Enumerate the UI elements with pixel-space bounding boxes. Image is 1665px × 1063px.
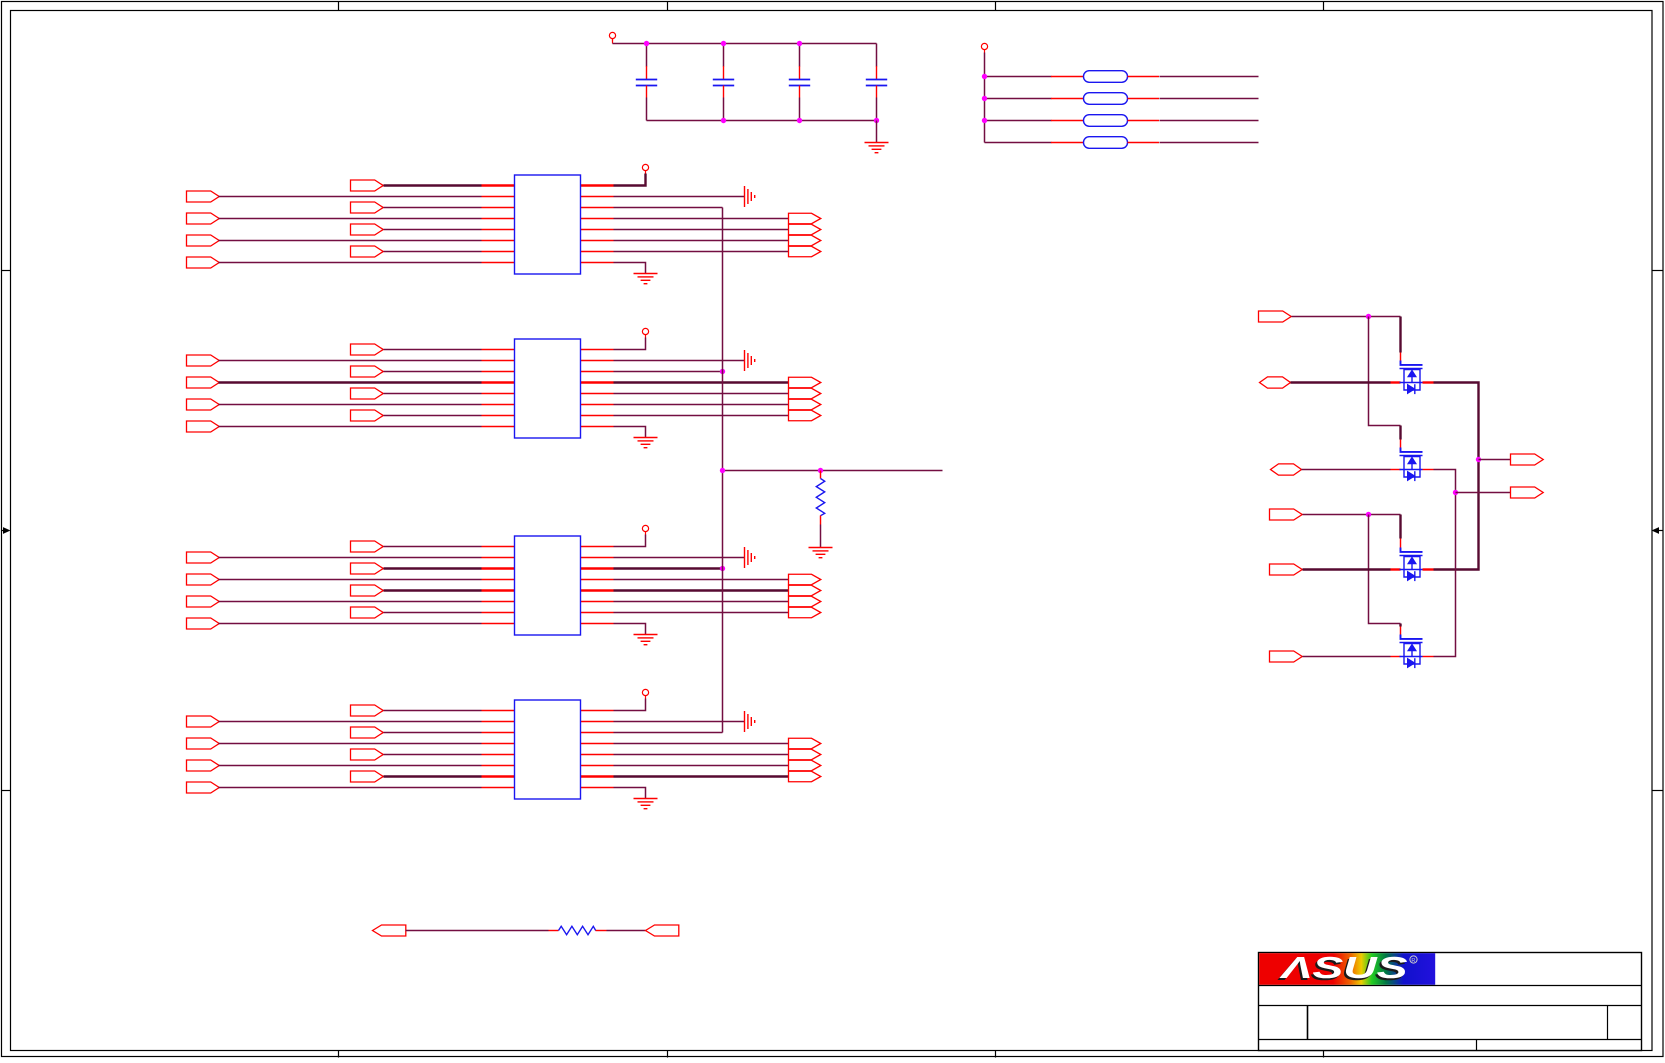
border tick bottom — [995, 1051, 997, 1058]
buffer IC U4 — [515, 700, 581, 799]
junction — [1476, 457, 1481, 462]
pin — [482, 579, 515, 581]
pin — [581, 415, 614, 417]
wire cap stub — [723, 44, 725, 67]
wire — [612, 39, 614, 44]
title block frame — [1259, 953, 1642, 1051]
pin — [581, 546, 614, 548]
pin — [581, 623, 614, 625]
wire to power — [614, 699, 646, 711]
wire horizontal branch — [723, 470, 943, 472]
pin — [581, 371, 614, 373]
pin — [581, 557, 614, 559]
wire cap stub — [799, 98, 801, 121]
wire — [384, 546, 482, 548]
wire cap stub — [876, 44, 878, 67]
input port block3 row2 — [187, 552, 220, 563]
wire cap stub — [799, 44, 801, 67]
pin — [1400, 353, 1402, 362]
output port block1 row6 — [789, 235, 821, 246]
pin — [581, 251, 614, 253]
svg-text:ΛSUS: ΛSUS — [1279, 950, 1408, 985]
junction — [720, 468, 725, 473]
pin — [482, 426, 515, 428]
wire — [985, 76, 1052, 78]
border tick top — [667, 2, 669, 11]
pin — [1391, 656, 1401, 658]
wire — [219, 579, 482, 581]
title block divider — [1476, 1040, 1478, 1051]
buffer IC U2 — [515, 339, 581, 438]
wire — [607, 930, 646, 932]
wire — [219, 623, 482, 625]
pin — [482, 207, 515, 209]
wire to output — [614, 229, 789, 231]
capacitor C2 — [713, 66, 734, 97]
pin — [482, 732, 515, 734]
input port NET4 — [1270, 509, 1303, 520]
border tick left — [2, 790, 11, 792]
input port block4 row7 — [351, 771, 384, 782]
input port block4 row4 — [187, 738, 220, 749]
buffer IC U1 — [515, 175, 581, 274]
pin — [1423, 381, 1434, 383]
wire to output — [1456, 492, 1511, 494]
wire — [1160, 142, 1259, 144]
wire — [384, 567, 482, 569]
transistor Q1 — [1400, 361, 1423, 395]
output port block2 row5 — [789, 388, 821, 399]
wire — [219, 721, 482, 723]
input port block1 row5 — [351, 224, 384, 235]
pin — [482, 240, 515, 242]
pin — [1400, 627, 1402, 635]
wire — [384, 349, 482, 351]
output port block4 row6 — [789, 760, 821, 771]
wire — [384, 754, 482, 756]
bidir port NET3 — [1271, 464, 1302, 475]
wire gate feed Q1 — [1399, 317, 1401, 353]
border tick top — [338, 2, 340, 11]
pin — [482, 710, 515, 712]
pin — [482, 546, 515, 548]
input port block2 row1 — [351, 344, 384, 355]
wire to output — [614, 415, 789, 417]
pin — [482, 196, 515, 198]
wire — [384, 371, 482, 373]
wire — [219, 240, 482, 242]
border tick bottom — [338, 1051, 340, 1058]
fuse/inductor L2 — [1051, 93, 1159, 105]
wire — [384, 251, 482, 253]
input port block3 row7 — [351, 607, 384, 618]
pin — [581, 404, 614, 406]
wire — [384, 393, 482, 395]
junction — [720, 369, 725, 374]
signal ground (block3) — [745, 547, 755, 568]
pin — [482, 360, 515, 362]
wire to ground — [614, 788, 646, 799]
wire to power — [614, 338, 646, 350]
input port block2 row6 — [187, 399, 220, 410]
wire cap stub — [876, 98, 878, 121]
wire — [384, 775, 482, 777]
pin — [581, 426, 614, 428]
input port block1 row6 — [187, 235, 220, 246]
transistor Q4 — [1400, 635, 1423, 669]
border tick left — [2, 270, 11, 272]
transistor Q2 — [1400, 448, 1423, 482]
input port block1 row3 — [351, 202, 384, 213]
wire — [219, 218, 482, 220]
resistor R1 — [816, 479, 824, 516]
wire — [384, 589, 482, 591]
pin — [482, 262, 515, 264]
border tick top — [1323, 2, 1325, 11]
ground (block1) — [634, 274, 658, 284]
wire — [984, 53, 986, 143]
pin — [482, 349, 515, 351]
wire to ground — [614, 427, 646, 438]
junction — [982, 96, 987, 101]
input port block3 row6 — [187, 596, 220, 607]
pin — [482, 184, 515, 186]
wire — [1292, 316, 1401, 318]
output port block3 row6 — [789, 596, 821, 607]
pin — [482, 381, 515, 383]
pin — [581, 184, 614, 186]
input port block2 row8 — [187, 421, 220, 432]
wire — [1160, 76, 1259, 78]
wire vertical bus — [722, 208, 724, 733]
wire to bus — [614, 567, 723, 569]
junction — [1366, 512, 1371, 517]
wire — [1303, 568, 1391, 570]
wire — [219, 787, 482, 789]
wire to bus — [614, 732, 723, 734]
pin — [581, 589, 614, 591]
wire Q1 drain to rail — [1434, 383, 1479, 570]
signal ground (block4) — [745, 711, 755, 732]
pin — [581, 393, 614, 395]
pin — [581, 381, 614, 383]
pin — [1423, 469, 1434, 471]
wire — [384, 415, 482, 417]
pin — [482, 229, 515, 231]
junction — [797, 41, 802, 46]
wire to bus — [614, 371, 723, 373]
wire to output — [614, 251, 789, 253]
resistor R2 — [559, 926, 596, 934]
pin — [820, 471, 822, 479]
wire — [384, 207, 482, 209]
wire cap stub — [646, 44, 648, 67]
wire — [219, 360, 482, 362]
pin — [482, 775, 515, 777]
pin — [1400, 440, 1402, 449]
wire cap stub — [646, 98, 648, 121]
border tick right — [1652, 270, 1664, 272]
input port block4 row6 — [187, 760, 220, 771]
input port block1 row4 — [187, 213, 220, 224]
pin — [482, 371, 515, 373]
fuse/inductor L1 — [1051, 71, 1159, 83]
output port block2 row6 — [789, 399, 821, 410]
wire to bus — [614, 207, 723, 209]
wire to output — [614, 775, 789, 777]
output port block1 row7 — [789, 246, 821, 257]
wire — [985, 98, 1052, 100]
wire — [384, 710, 482, 712]
wire to power — [614, 174, 646, 186]
input port block3 row1 — [351, 541, 384, 552]
power symbol (block1) — [642, 164, 648, 173]
junction — [874, 118, 879, 123]
input port block3 row5 — [351, 585, 384, 596]
wire — [1160, 98, 1259, 100]
pin — [581, 754, 614, 756]
pin — [581, 207, 614, 209]
wire — [219, 196, 482, 198]
capacitor C4 — [866, 66, 887, 97]
signal ground (block1) — [745, 186, 755, 207]
input port block4 row5 — [351, 749, 384, 760]
wire — [1303, 514, 1401, 516]
junction — [1453, 490, 1458, 495]
wire cap stub — [723, 98, 725, 121]
border centre arrow left — [2, 527, 11, 534]
pin — [482, 251, 515, 253]
pin — [482, 612, 515, 614]
junction — [982, 118, 987, 123]
input port block3 row8 — [187, 618, 220, 629]
wire — [219, 262, 482, 264]
wire to output — [614, 601, 789, 603]
junction — [797, 118, 802, 123]
border tick top — [995, 2, 997, 11]
pin — [581, 218, 614, 220]
wire bottom rail — [647, 120, 877, 122]
power symbol (block4) — [642, 689, 648, 698]
pin — [1423, 656, 1434, 658]
capacitor C1 — [636, 66, 657, 97]
pin — [581, 710, 614, 712]
pin — [581, 262, 614, 264]
wire to output — [614, 743, 789, 745]
pin — [581, 765, 614, 767]
wire to signal ground — [614, 196, 745, 198]
wire — [384, 229, 482, 231]
output port block3 row7 — [789, 607, 821, 618]
power symbol VCC (cap bank) — [609, 32, 615, 41]
wire — [219, 743, 482, 745]
pin — [482, 623, 515, 625]
wire to signal ground — [614, 721, 745, 723]
input port block2 row2 — [187, 355, 220, 366]
output port block2 row7 — [789, 410, 821, 421]
junction — [818, 468, 823, 473]
wire — [384, 184, 482, 186]
pin — [1391, 469, 1401, 471]
junction — [721, 41, 726, 46]
wire to output — [614, 393, 789, 395]
border tick right — [1652, 790, 1664, 792]
fuse/inductor L4 — [1051, 137, 1159, 149]
border centre arrow right — [1652, 527, 1664, 534]
input port block4 row8 — [187, 782, 220, 793]
input port block2 row5 — [351, 388, 384, 399]
title block line — [1259, 985, 1642, 987]
wire — [219, 601, 482, 603]
ground (block2) — [634, 438, 658, 448]
pin — [581, 349, 614, 351]
wire branch to Q2 gate — [1369, 317, 1401, 426]
title block line — [1259, 1039, 1642, 1041]
border tick bottom — [1323, 1051, 1325, 1058]
junction — [720, 566, 725, 571]
input port block1 row1 — [351, 180, 384, 191]
input port block4 row3 — [351, 727, 384, 738]
wire to ground — [614, 624, 646, 635]
input port block4 row2 — [187, 716, 220, 727]
wire to output — [614, 612, 789, 614]
wire to output — [614, 218, 789, 220]
border tick bottom — [667, 1051, 669, 1058]
pin — [581, 612, 614, 614]
wire — [384, 612, 482, 614]
power symbol VCC (fuse bank) — [981, 43, 987, 52]
title block divider — [1307, 1006, 1309, 1040]
wire gate feed Q4 — [1399, 624, 1401, 627]
input port block3 row3 — [351, 563, 384, 574]
output port block4 row7 — [789, 771, 821, 782]
input port block4 row1 — [351, 705, 384, 716]
power symbol (block3) — [642, 525, 648, 534]
wire — [985, 142, 1052, 144]
pin — [581, 567, 614, 569]
wire — [384, 732, 482, 734]
output port block3 row4 — [789, 574, 821, 585]
pin — [1391, 568, 1401, 570]
wire to output — [614, 589, 789, 591]
wire to signal ground — [614, 360, 745, 362]
wire — [1302, 469, 1391, 471]
output port NETB — [1511, 487, 1544, 498]
svg-text:R: R — [1411, 958, 1415, 964]
output port block3 row5 — [789, 585, 821, 596]
pin — [581, 229, 614, 231]
junction — [644, 41, 649, 46]
wire gate feed Q2 — [1399, 426, 1401, 440]
pin — [482, 567, 515, 569]
wire to power — [614, 535, 646, 547]
title block line — [1259, 1005, 1642, 1007]
pin — [482, 765, 515, 767]
wire to output — [614, 765, 789, 767]
ground (R1) — [809, 548, 833, 558]
input port NET5 — [1270, 564, 1303, 575]
junction — [721, 118, 726, 123]
pin — [581, 360, 614, 362]
output port block1 row5 — [789, 224, 821, 235]
port (left, bottom link) — [373, 925, 406, 936]
input port block2 row4 — [187, 377, 220, 388]
wire to output — [614, 240, 789, 242]
input port block2 row3 — [351, 366, 384, 377]
signal ground (block2) — [745, 350, 755, 371]
pin — [482, 721, 515, 723]
wire to signal ground — [614, 557, 745, 559]
input port block3 row4 — [187, 574, 220, 585]
wire — [219, 765, 482, 767]
wire — [1291, 381, 1391, 383]
pin — [482, 393, 515, 395]
input port NET1 — [1259, 311, 1292, 322]
wire Q2 drain rail — [1434, 470, 1456, 657]
ground (cap bank) — [865, 143, 889, 153]
power symbol (block2) — [642, 328, 648, 337]
output port block1 row4 — [789, 213, 821, 224]
ASUS logo registered mark — [1410, 956, 1417, 964]
pin — [1400, 539, 1402, 548]
buffer IC U3 — [515, 536, 581, 635]
pin — [482, 589, 515, 591]
pin — [581, 240, 614, 242]
output port NETA — [1511, 454, 1544, 465]
wire — [985, 120, 1052, 122]
ASUS logo banner — [1259, 953, 1435, 985]
wire to output — [614, 404, 789, 406]
pin — [581, 579, 614, 581]
junction — [1366, 314, 1371, 319]
port (right, bottom link) — [646, 925, 679, 936]
pin — [482, 218, 515, 220]
wire to output — [614, 579, 789, 581]
wire — [219, 557, 482, 559]
bidir port NET2 — [1260, 377, 1291, 388]
pin — [581, 775, 614, 777]
ground (block3) — [634, 635, 658, 645]
pin — [482, 601, 515, 603]
junction — [982, 74, 987, 79]
pin — [482, 754, 515, 756]
wire — [1160, 120, 1259, 122]
fuse/inductor L3 — [1051, 115, 1159, 127]
pin — [482, 404, 515, 406]
input port block1 row7 — [351, 246, 384, 257]
wire to ground — [614, 263, 646, 274]
pin — [596, 930, 607, 932]
pin — [482, 787, 515, 789]
pin — [1423, 568, 1434, 570]
wire — [1303, 656, 1391, 658]
pin — [549, 930, 559, 932]
pin — [482, 557, 515, 559]
pin — [581, 721, 614, 723]
output port block4 row5 — [789, 749, 821, 760]
input port NET6 — [1270, 651, 1303, 662]
wire gate feed Q3 — [1399, 515, 1401, 539]
wire — [219, 381, 482, 383]
pin — [581, 196, 614, 198]
pin — [820, 516, 822, 525]
wire — [219, 426, 482, 428]
output port block4 row4 — [789, 738, 821, 749]
transistor Q3 — [1400, 548, 1423, 582]
pin — [581, 787, 614, 789]
wire — [219, 404, 482, 406]
title block divider — [1607, 1006, 1609, 1040]
